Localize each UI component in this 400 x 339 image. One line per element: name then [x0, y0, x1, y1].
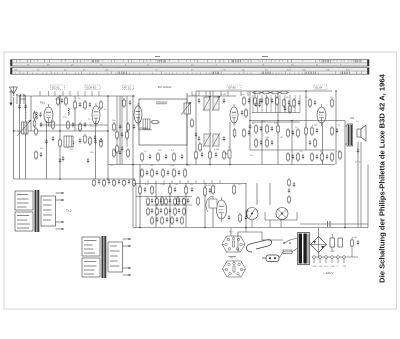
- wire: grid lead arc: [206, 196, 212, 212]
- capacitor C69 det: [284, 106, 286, 111]
- capacitor C61: [121, 132, 123, 137]
- capacitor C74 audio: [151, 198, 153, 203]
- wire: audio v x205: [204, 183, 206, 228]
- capacitor C79c audio: [160, 208, 162, 213]
- svg-text:Tr 2: Tr 2: [66, 209, 72, 213]
- resistor R56: [239, 213, 242, 223]
- resistor R2: [52, 120, 55, 130]
- capacitor C59: [261, 98, 263, 103]
- ratio detector coil at box left edge: [143, 119, 150, 129]
- capacitor C73: [309, 140, 311, 145]
- label EL 84: [314, 85, 327, 90]
- resistor R41 screen: [309, 98, 312, 108]
- wire: v x108: [107, 96, 109, 179]
- wire: output secondary drop: [360, 142, 362, 228]
- resistor R11: [84, 134, 87, 144]
- antenna terminal stubs: [16, 94, 24, 104]
- resistor R44: [331, 126, 334, 136]
- wire: top rail right of FM box: [187, 95, 236, 97]
- coil L4 with arrow (AM IF input): [181, 102, 191, 115]
- wire: B+ rail upper right: [196, 90, 332, 92]
- capacitor C79g audio: [166, 217, 168, 222]
- socket caption 1: [229, 256, 236, 258]
- wire: input v3: [25, 95, 27, 179]
- resistor R18 below box: [127, 148, 130, 158]
- wire: v x336: [335, 91, 337, 165]
- wire: stub x246 to mains: [245, 228, 247, 233]
- wire: v x127: [126, 96, 128, 147]
- wire: audio rail y205: [146, 204, 192, 206]
- resistor R6: [84, 100, 87, 110]
- capacitor C87: [293, 182, 295, 187]
- IF transformer block Tr3 with winding table (lower left): [82, 236, 131, 278]
- resistor R81 audio: [165, 197, 168, 206]
- label box Rö1 EC92: [51, 85, 65, 90]
- resistor R72: [331, 152, 334, 162]
- resistor R84g audio: [161, 216, 164, 225]
- wire: v x368: [367, 165, 369, 228]
- capacitor C7: [59, 158, 61, 163]
- capacitor C23 under box: [149, 154, 151, 159]
- row below left bus R91: [113, 179, 116, 188]
- resistor R33: [255, 138, 258, 148]
- resistor R32: [277, 124, 280, 134]
- tube socket bottom view 1: [222, 235, 245, 252]
- resistor R62: [116, 130, 119, 140]
- resistor R70 right mid: [311, 152, 314, 162]
- resistor R0a: [33, 111, 36, 120]
- resistor R1: [35, 127, 38, 136]
- resistor R49: [169, 185, 172, 195]
- row below left bus R92: [123, 179, 126, 188]
- IF transformer S6 primary coil: [203, 96, 211, 111]
- wire: v x246 bottom: [245, 183, 247, 228]
- wire: v x117: [116, 96, 118, 165]
- capacitor C70: [195, 132, 197, 137]
- capacitor C88 on feedback line: [328, 221, 331, 227]
- svg-text:2,2M: 2,2M: [330, 251, 335, 253]
- wire: top HT rail left: [18, 95, 135, 97]
- resistor R82 audio: [174, 197, 177, 206]
- capacitor C15c: [87, 158, 89, 163]
- mains plug: [262, 255, 279, 262]
- capacitor C72: [249, 124, 251, 129]
- wire: v x133: [132, 96, 134, 228]
- wire: audio v x156: [155, 183, 157, 228]
- capacitor C76 audio: [169, 198, 171, 203]
- wire: det rail 2: [252, 121, 300, 123]
- tube socket bottom view 2: [222, 260, 245, 277]
- wire: stub x270: [269, 220, 271, 228]
- wire: mid rail right: [250, 149, 335, 151]
- volume pot P1: [225, 150, 231, 158]
- resistor R73 det: [289, 104, 292, 114]
- label box at Rö7: [209, 199, 217, 208]
- svg-text:0,1M: 0,1M: [336, 151, 341, 153]
- capacitor C54: [228, 215, 230, 220]
- resistor R8: [67, 120, 70, 130]
- resistor R84i audio: [181, 216, 184, 225]
- resistor R78: [314, 138, 317, 148]
- IF transformer S6 secondary coil: [212, 96, 220, 111]
- wire: stub x281: [280, 219, 282, 228]
- capacitor C68: [326, 154, 328, 159]
- resistor R42 grid: [331, 98, 334, 108]
- wire: antenna lead down: [13, 97, 15, 179]
- wire: v x262: [261, 121, 263, 165]
- wire: v x122: [121, 96, 123, 165]
- output transformer Tr1: [345, 124, 353, 146]
- resistor R36: [293, 98, 296, 108]
- svg-text:0,5M: 0,5M: [170, 165, 175, 167]
- wire: v x345: [344, 121, 346, 228]
- coil L3 oscillator: [68, 108, 69, 115]
- resistor R57 dropper: [351, 238, 354, 248]
- resistor R67: [162, 168, 165, 178]
- capacitor C20 below box: [119, 150, 121, 155]
- resistor R27 agc: [195, 150, 198, 160]
- wire: AF section top rail: [133, 183, 246, 185]
- capacitor C4: [52, 136, 54, 141]
- svg-text:BU 12de43: BU 12de43: [158, 85, 172, 89]
- resistor R59 det row: [270, 91, 280, 94]
- wire: mains section frame: [238, 232, 262, 252]
- resistor R84h audio: [171, 216, 174, 225]
- svg-text:EF 89: EF 89: [229, 86, 237, 90]
- resistor R84d audio: [174, 207, 177, 216]
- wire: audio v x213: [212, 196, 214, 228]
- electrolytic capacitor C57: [338, 238, 343, 247]
- small cluster label under Rö3: [138, 128, 152, 130]
- label AM/FM switch note: [20, 98, 26, 100]
- gang dashed line tuner: [25, 104, 27, 120]
- resistor R64: [116, 144, 119, 154]
- capacitor C37: [260, 140, 262, 145]
- wire: HT to bus: [319, 228, 359, 257]
- capacitor C48: [144, 187, 146, 192]
- loudspeaker: [357, 125, 366, 141]
- resistor R23: [243, 96, 246, 106]
- wire: het rail stubs bottom: [140, 180, 220, 184]
- capacitor C34: [215, 152, 217, 157]
- capacitor C9: [89, 102, 91, 107]
- capacitor C8: [79, 102, 81, 107]
- resistor R39: [287, 152, 290, 162]
- dial scale band A (top tuning scale): [11, 60, 370, 67]
- resistor R75: [199, 142, 202, 152]
- wire: socket pointer: [230, 228, 232, 236]
- dial lamp L front view: [276, 208, 288, 220]
- capacitor C18: [119, 124, 121, 129]
- label ECH81: [227, 85, 241, 90]
- capacitor C77 audio: [178, 198, 180, 203]
- capacitor C62: [121, 146, 123, 151]
- resistor R84b audio: [156, 207, 159, 216]
- svg-text:1M: 1M: [280, 137, 283, 139]
- svg-text:0,5M: 0,5M: [214, 149, 219, 151]
- resistor row under FM box R65: [141, 168, 144, 178]
- tube Rö1 ECC85 triode a: [44, 104, 53, 126]
- capacitor C36: [271, 126, 273, 131]
- wire: audio v x186: [185, 183, 187, 228]
- capacitor C17 at tuner: [129, 100, 131, 105]
- resistor R37: [287, 128, 290, 138]
- resistor R66: [151, 168, 154, 178]
- row below left bus C82: [98, 179, 100, 184]
- wire: v x292: [291, 121, 293, 165]
- capacitor C14: [94, 139, 96, 144]
- capacitor C65: [167, 170, 169, 175]
- wire: input v2: [19, 95, 21, 179]
- wire: sub rail under tubes 1-2: [40, 124, 108, 126]
- svg-text:1M: 1M: [175, 184, 178, 186]
- wire: v x250: [249, 91, 251, 150]
- resistor R26: [243, 128, 246, 138]
- svg-text:0,5M: 0,5M: [46, 126, 51, 128]
- resistor R50: [177, 196, 180, 206]
- capacitor C79f audio: [156, 217, 158, 222]
- svg-text:2,2M: 2,2M: [160, 184, 165, 186]
- wire: v x358 speaker lead: [357, 142, 359, 228]
- tuning capacitor C1: [18, 104, 20, 109]
- row below left bus C84: [118, 179, 120, 184]
- resistor R3: [59, 138, 62, 148]
- svg-text:B 302: B 302: [355, 162, 361, 164]
- resistor R54: [212, 184, 215, 195]
- wire: v x306: [305, 91, 307, 150]
- IF transformer S7 coils: [203, 133, 220, 147]
- resistor R94 choke col: [288, 178, 291, 187]
- svg-text:0,5M: 0,5M: [221, 94, 226, 96]
- capacitor C26 IF: [198, 98, 200, 103]
- capacitor C28: [248, 98, 250, 103]
- resistor R13: [89, 136, 92, 146]
- capacitor C24 under box: [165, 154, 167, 159]
- resistor R15: [113, 122, 116, 132]
- row below left bus C83: [108, 179, 110, 184]
- wire: v left tube col: [46, 121, 48, 179]
- svg-text:G: G: [247, 209, 249, 213]
- svg-text:Die Schaltung der Philips-Phil: Die Schaltung der Philips-Philetta de Lu…: [378, 73, 387, 282]
- resistor R21 under box: [157, 152, 160, 162]
- svg-text:0,5M: 0,5M: [274, 123, 279, 125]
- junction dots on rails: [13, 90, 346, 228]
- row below left bus R93: [133, 179, 136, 188]
- resistor R0b: [33, 119, 36, 128]
- capacitor C0a: [39, 112, 41, 117]
- capacitor C81 det: [258, 102, 260, 107]
- capacitor C43: [302, 154, 304, 159]
- row below left bus R90: [103, 179, 106, 188]
- switch S contact: [283, 240, 291, 244]
- wire: lamp leads: [265, 212, 297, 220]
- tube Rö4 ECH81: [230, 104, 238, 126]
- tiny value labels scatter: [33, 94, 359, 253]
- capacitor C33: [201, 152, 203, 157]
- capacitor C46 tone: [336, 128, 338, 133]
- capacitor C40: [298, 100, 300, 105]
- mains cable loop: [246, 240, 271, 252]
- resistor R84f audio: [151, 216, 154, 225]
- resistor R47: [151, 185, 154, 195]
- resistor R40: [297, 152, 300, 162]
- capacitor C86 choke col: [288, 188, 290, 193]
- svg-text:Rö 7: Rö 7: [230, 258, 235, 260]
- tuning indicator EM84 front view: [246, 208, 258, 220]
- resistor R38: [297, 128, 300, 138]
- capacitor C38: [271, 140, 273, 145]
- capacitor C42: [292, 154, 294, 159]
- resistor R22 under box: [173, 152, 176, 162]
- capacitor C3: [40, 122, 42, 127]
- label EF 89: [123, 85, 134, 90]
- fuse Si1: [283, 250, 292, 254]
- capacitor C10: [72, 122, 74, 127]
- svg-text:~ 220 V: ~ 220 V: [323, 271, 333, 275]
- svg-text:1M: 1M: [150, 165, 153, 167]
- resistor R61: [276, 96, 279, 106]
- wire: input v4: [30, 96, 32, 131]
- resistor R88 det row: [279, 91, 289, 94]
- power transformer Tr4: [298, 233, 310, 265]
- resistor R14 at tuner: [123, 98, 126, 108]
- wire: v x60: [59, 96, 61, 179]
- capacitor C31: [223, 136, 225, 141]
- svg-text:EC 92: EC 92: [52, 86, 60, 90]
- wire: feedback line to speaker: [300, 223, 368, 225]
- resistor R60: [266, 96, 269, 106]
- capacitor C67: [316, 154, 318, 159]
- capacitor C53: [209, 188, 211, 193]
- resistor R48: [161, 196, 164, 206]
- resistor R77: [305, 126, 308, 136]
- svg-text:302: 302: [350, 117, 355, 120]
- capacitor C11: [84, 122, 86, 127]
- capacitor C55: [245, 215, 247, 220]
- wire: audio box left edge: [135, 184, 137, 228]
- resistor R74: [191, 118, 194, 128]
- resistor R9: [79, 122, 82, 132]
- capacitor C79b audio: [151, 208, 153, 213]
- resistor R53 tall: [204, 186, 207, 197]
- capacitor C44: [314, 100, 316, 105]
- tube Rö6 EL84 output pentode: [317, 104, 326, 126]
- wire: power drop x318: [318, 253, 320, 258]
- dense tick clusters on scales: [92, 60, 361, 75]
- tone cap C52: [191, 187, 193, 192]
- resistor R12: [100, 138, 103, 148]
- page border of scanned sheet: [4, 52, 397, 309]
- resistor R79 audio: [147, 197, 150, 206]
- resistor R4 lower left: [35, 150, 38, 160]
- resistor R5: [74, 100, 77, 110]
- resistor R80 audio: [156, 197, 159, 206]
- wire: mains top link: [262, 239, 283, 241]
- wire: v x196: [195, 91, 197, 165]
- svg-text:ECH 81: ECH 81: [87, 86, 97, 90]
- resistor R7: [100, 100, 103, 110]
- svg-text:Rö 6: Rö 6: [229, 232, 234, 234]
- wire: mains leads: [279, 238, 298, 258]
- wire: left AGC rail: [14, 130, 109, 132]
- coil L2 input filter: [36, 112, 37, 119]
- capacitor C50: [174, 187, 176, 192]
- wire: main chassis bus bottom: [133, 227, 368, 229]
- resistor R86: [65, 96, 68, 106]
- resistor R84e audio: [183, 207, 186, 216]
- capacitor C25 under box: [181, 154, 183, 159]
- FM tuner unit box: [139, 99, 187, 145]
- IF transformer block Tr2 with winding table (upper left): [15, 190, 64, 232]
- svg-text:2,2M: 2,2M: [206, 185, 211, 187]
- resistor R55: [233, 184, 236, 195]
- capacitor C15b: [62, 156, 64, 161]
- resistor R17 below box: [113, 148, 116, 158]
- resistor R20 under box: [141, 152, 144, 162]
- capacitor C29: [259, 98, 261, 103]
- wire: stubs to top rail: [40, 91, 255, 96]
- resistor R25 below tube: [233, 128, 236, 138]
- tube Rö2 ECH81 mixer: [92, 103, 100, 127]
- resistor R16: [127, 122, 130, 132]
- capacitor C47 across speaker: [357, 148, 359, 153]
- wire: stub x252 eye: [251, 220, 253, 228]
- svg-text:0,1M: 0,1M: [312, 125, 317, 127]
- wire: audio v x140: [139, 165, 141, 228]
- wire: output stage rail: [250, 120, 345, 122]
- wire: v x95: [95, 121, 97, 179]
- capacitor C45 cathode: [316, 128, 318, 133]
- resistor R51: [185, 185, 188, 195]
- capacitor C79h audio: [176, 217, 178, 222]
- capacitor C66: [178, 170, 180, 175]
- resistor R35: [283, 98, 286, 108]
- wire: v x257: [256, 183, 258, 205]
- wire: left bottom rail: [14, 178, 136, 180]
- capacitor C27 IF: [223, 98, 225, 103]
- resistor R85: [57, 96, 60, 106]
- antenna: [10, 87, 18, 96]
- resistor R19 under tube Rö3: [150, 121, 160, 124]
- dipole antenna arrow: [9, 90, 13, 106]
- wire: v x120: [119, 96, 121, 165]
- capacitor C13: [94, 135, 96, 140]
- resistor R24: [254, 96, 257, 106]
- resistor R46: [139, 185, 142, 195]
- resistor R30: [255, 124, 258, 134]
- wire: audio mid rail: [136, 196, 192, 198]
- resistor R69: [184, 168, 187, 178]
- capacitor C79: [61, 98, 63, 103]
- ferrite antenna coil L1: [17, 120, 31, 136]
- resistor R43 cathode: [311, 126, 314, 136]
- capacitor C79d audio: [169, 208, 171, 213]
- capacitor C80 det: [255, 102, 257, 107]
- capacitor C19: [133, 124, 135, 129]
- resistor R52: [197, 196, 200, 206]
- wire: v x322: [322, 123, 324, 165]
- trimmer C16: [100, 138, 102, 143]
- wire: det rail: [252, 112, 300, 114]
- wire: long middle rail: [108, 164, 335, 166]
- capacitor C78 audio: [187, 198, 189, 203]
- wire: v x270: [269, 183, 271, 205]
- resistor R10: [67, 138, 70, 148]
- resistor R58 det row: [261, 91, 271, 94]
- resistor R83 audio: [183, 197, 186, 206]
- capacitor C6 lower left: [40, 152, 42, 157]
- capacitor C60: [271, 98, 273, 103]
